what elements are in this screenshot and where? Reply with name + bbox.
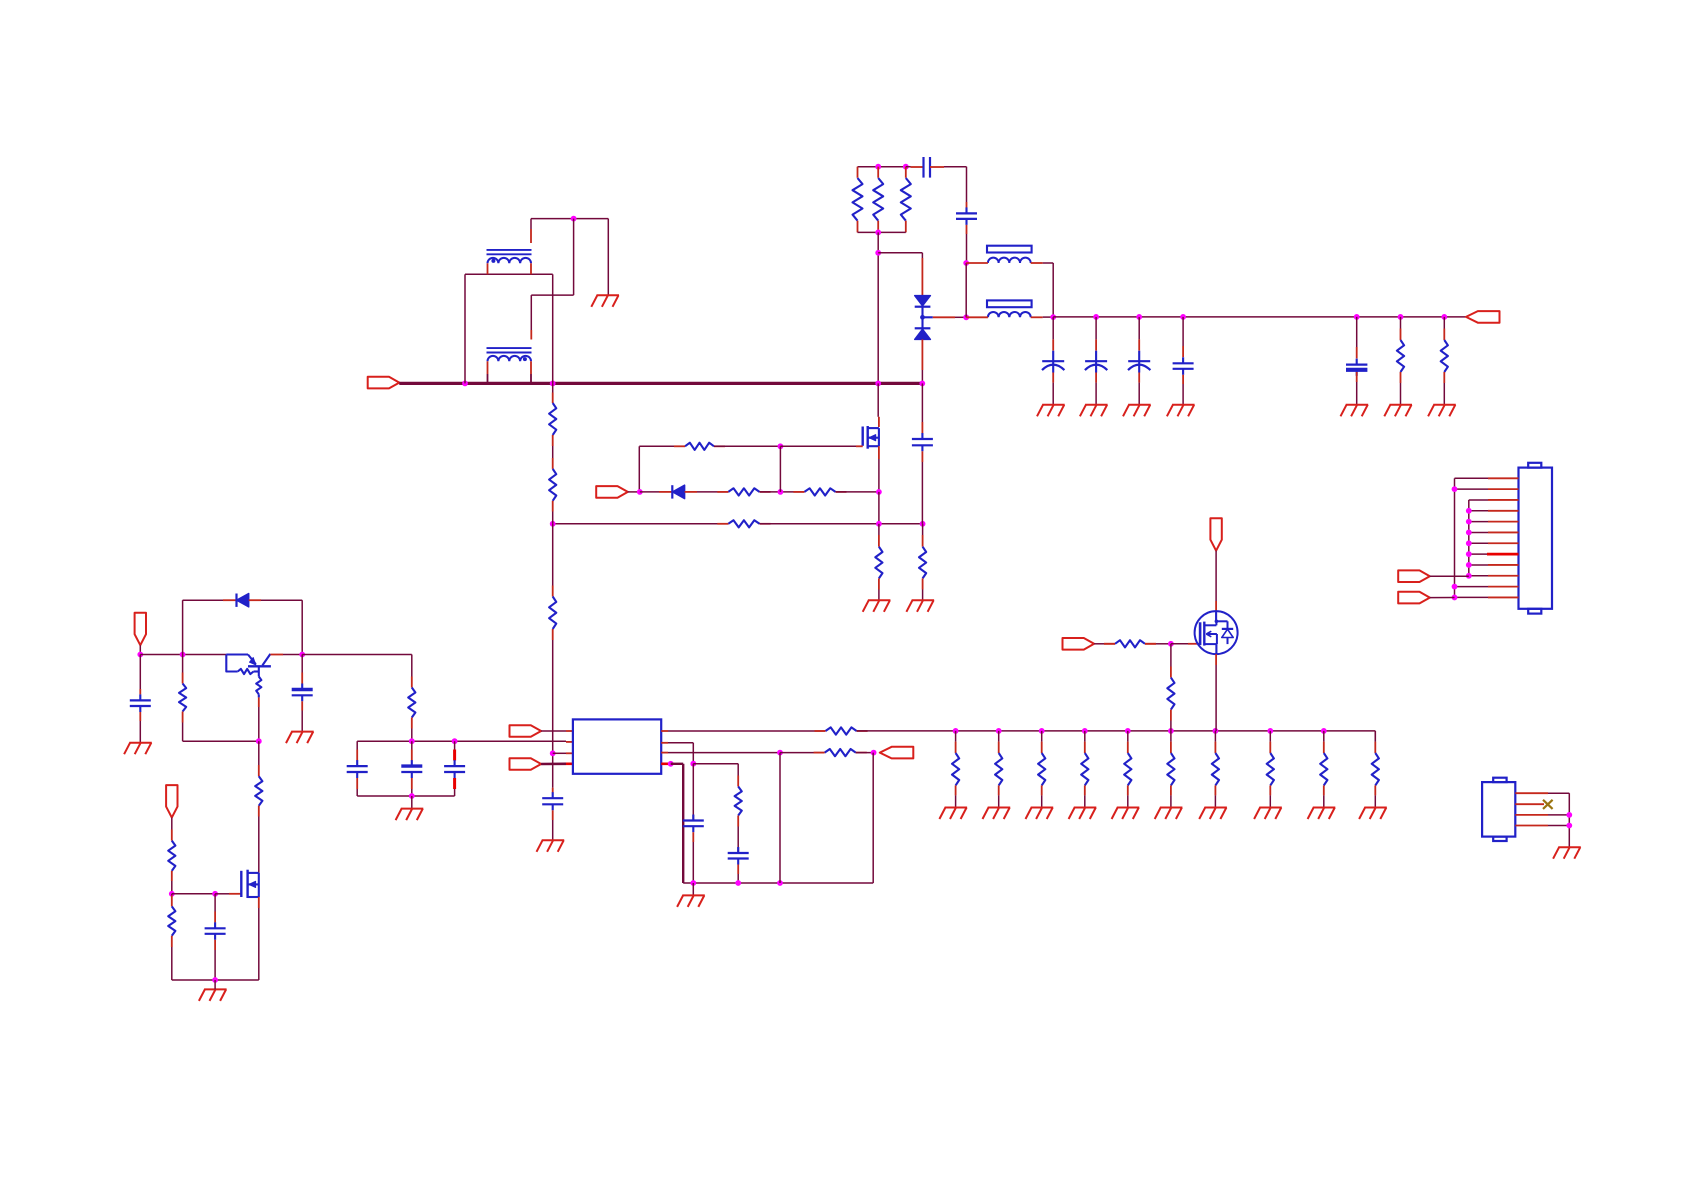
node out bus 6 <box>1398 314 1404 320</box>
node bank bottom junction <box>409 793 415 799</box>
ground G-R31 <box>1308 808 1336 820</box>
wire TVS mid tap <box>923 316 933 318</box>
wire gate row 2 <box>714 445 780 447</box>
node feedback source <box>876 521 882 527</box>
node chain pin3 junction <box>550 750 556 756</box>
node row C junction <box>777 750 783 756</box>
wire feedback row 2 <box>760 523 923 525</box>
resistor R12 <box>552 383 554 392</box>
transistor Q2 MOSFET with body diode <box>1195 611 1238 654</box>
capacitor C3 polarized <box>1052 317 1054 339</box>
wire J1 rail 1 <box>1454 478 1456 597</box>
resistor R7 <box>728 488 759 495</box>
node bus T2 junction <box>550 381 556 387</box>
resistor R31 <box>1323 731 1325 742</box>
resistor R24 <box>998 731 1000 742</box>
connector J2 body <box>1482 782 1515 837</box>
pin J1-10 <box>1469 575 1488 577</box>
wire drive row 2 <box>760 491 805 493</box>
node bank bus 1 <box>953 728 959 734</box>
wire bank bus corner <box>1374 731 1376 742</box>
resistor R21 <box>825 749 856 756</box>
resistor R17 <box>171 830 173 841</box>
node bank bus 8 <box>1267 728 1273 734</box>
wire T2 feed <box>573 219 575 296</box>
resistor R18 <box>171 894 173 896</box>
wire row B corner <box>668 742 693 744</box>
wire cap bank bottom rail <box>357 795 454 797</box>
diode D1 TVS bidirectional <box>915 296 931 306</box>
pin U1 out C <box>661 752 668 754</box>
capacitor C17 <box>737 848 739 854</box>
wire top link <box>530 219 532 229</box>
wire bottom left rail <box>172 979 259 981</box>
wire P12 to pin12 <box>1430 597 1455 599</box>
ground G-R30 <box>1254 808 1282 820</box>
node rail junction 3 <box>777 880 783 886</box>
wire drive row <box>697 491 728 493</box>
node bank bus 7 <box>1213 728 1219 734</box>
wire Q2 source to bus <box>1215 665 1217 731</box>
wire P7 to IC thick <box>541 762 566 765</box>
node out bus 1 <box>1050 314 1056 320</box>
capacitor C12 <box>356 741 358 749</box>
node snubber tap <box>875 250 881 256</box>
resistor R27 <box>1127 731 1129 742</box>
ground G-R26 <box>1069 808 1097 820</box>
pin J2-4 <box>1515 825 1548 827</box>
resistor R10 <box>878 524 880 535</box>
pin Q1 source <box>878 446 880 459</box>
wire chain link 1 <box>552 446 554 458</box>
capacitor C7 electrolytic <box>1356 317 1358 347</box>
transistor Q1 MOSFET <box>878 417 880 427</box>
wire pin3 link <box>553 752 566 754</box>
ground G-C15 <box>537 840 565 852</box>
wire to ground drop <box>607 219 609 296</box>
pin Q4 emitter-R <box>258 697 260 707</box>
pin J1-11 <box>1455 586 1489 588</box>
capacitor C8 <box>921 383 923 422</box>
node out bus 4 <box>1180 314 1186 320</box>
node L1 input junction <box>963 260 969 266</box>
resistor R20 <box>826 727 857 734</box>
node bank bus 9 <box>1321 728 1327 734</box>
node bank bus 2 <box>996 728 1002 734</box>
wire snubber drop <box>877 232 879 383</box>
wire P5 stub <box>171 818 173 830</box>
wire L1 out corner <box>1043 262 1054 264</box>
node bus TVS junction <box>919 381 925 387</box>
wire J2-4 link <box>1548 825 1569 827</box>
pin Q3 gate wire <box>215 893 229 895</box>
wire J2-3 link <box>1548 814 1569 816</box>
wire P10 to Q2 <box>1215 551 1217 601</box>
resistor R13 <box>552 458 554 469</box>
resistor R3 <box>905 167 907 178</box>
node drive junction <box>637 489 643 495</box>
node rail junction 2 <box>735 880 741 886</box>
resistor R32 <box>1374 731 1376 742</box>
wire gate rail <box>172 893 215 895</box>
wire Q1 source down <box>878 459 880 492</box>
transformer T2 winding A <box>487 347 532 349</box>
IC U1 <box>573 719 661 773</box>
pin J1-4 <box>1469 510 1488 512</box>
resistor R34 <box>1170 644 1172 667</box>
node out bus 7 <box>1441 314 1447 320</box>
wire TVS link <box>878 252 922 254</box>
resistor R25 <box>1041 731 1043 742</box>
ground G-R11 <box>906 600 934 612</box>
node out bus 5 <box>1354 314 1360 320</box>
ground G-C9 <box>124 743 152 755</box>
ground G-R28 <box>1155 808 1183 820</box>
inductor L2 <box>987 300 1032 307</box>
wire row A <box>668 730 826 732</box>
resistor R15 <box>182 655 184 673</box>
node J1 rail1 pin11 <box>1452 584 1458 590</box>
capacitor C1 <box>906 166 911 168</box>
node J1 rail2 pin7 <box>1466 540 1472 546</box>
wire transformer top jog <box>465 273 553 275</box>
capacitor C10 <box>301 655 303 673</box>
wire collector link <box>283 654 302 656</box>
resistor R22 <box>737 776 739 787</box>
capacitor C4 polarized <box>1095 317 1097 339</box>
resistor R6 <box>685 443 714 450</box>
wire bank gnd stub <box>411 796 413 809</box>
no-connect X mark <box>1543 800 1553 809</box>
transformer T1 winding A <box>487 249 532 251</box>
connector P7 input arrow 2 <box>510 758 542 770</box>
wire Q3 source down <box>258 908 260 980</box>
resistor R29 <box>1214 731 1216 742</box>
resistor R11 <box>922 524 924 535</box>
connector P2 output arrow <box>1466 311 1500 323</box>
resistor R4 <box>1400 317 1402 329</box>
connector P3 drive input arrow <box>596 486 628 498</box>
wire chain long drop <box>552 640 554 788</box>
ground G-rail <box>692 883 694 895</box>
wire drain from bus <box>877 383 879 416</box>
connector P8 output arrow <box>880 747 914 759</box>
node out bus 3 <box>1136 314 1142 320</box>
connector P12 arrow to J1 <box>1398 592 1430 604</box>
ground G-R32 <box>1359 808 1387 820</box>
node gate junction <box>1168 641 1174 647</box>
pin J1-12 <box>1455 596 1489 598</box>
node J1 rail1 pin12 <box>1452 595 1458 601</box>
wire L junction drop <box>965 263 967 317</box>
node snubber bottom mid <box>875 230 881 236</box>
wire bank bus <box>857 730 1376 732</box>
capacitor C6 <box>1182 317 1184 346</box>
node collector junction <box>299 652 305 658</box>
resistor R5 <box>1443 317 1445 329</box>
node out bus 2 <box>1093 314 1099 320</box>
wire feedback row <box>553 523 729 525</box>
node feedback right <box>920 521 926 527</box>
node rail junction 1 <box>690 880 696 886</box>
wire row B to RC branch <box>693 763 738 765</box>
ground G-R27 <box>1112 808 1140 820</box>
ground G-R10 <box>863 600 891 612</box>
wire row B down <box>692 764 694 815</box>
node J1 rail2 pin6 <box>1466 530 1472 536</box>
wire gate row <box>639 445 685 447</box>
pin J1-7 <box>1469 542 1488 544</box>
node L2 input junction <box>963 314 969 320</box>
pin J1-2 <box>1455 488 1489 490</box>
wire P4 stub <box>139 645 141 654</box>
node bank bus 4 <box>1082 728 1088 734</box>
ground G-R25 <box>1026 808 1054 820</box>
wire left rail lower <box>183 740 259 742</box>
wire diode loop up <box>182 600 184 654</box>
wire diode loop right <box>261 599 302 601</box>
node J1 rail2 pin9 <box>1466 562 1472 568</box>
wire IC bottom rail <box>683 882 873 884</box>
wire C1 to C2 <box>944 166 967 168</box>
node bus snubber junction <box>875 381 881 387</box>
wire gate row 3 <box>780 445 856 447</box>
ground G-R24 <box>983 808 1011 820</box>
node gate row junction <box>778 443 784 449</box>
pin J1-6 <box>1469 531 1488 533</box>
wire row C 2 <box>780 752 825 754</box>
wire row C 3 <box>856 752 874 754</box>
wire P6 to IC <box>541 730 566 732</box>
ground G-bank <box>396 809 424 821</box>
resistor R33 <box>1115 640 1145 647</box>
pin J2-3 <box>1515 814 1548 816</box>
ground G-R5 <box>1428 405 1456 417</box>
connector P11 arrow to J1 <box>1398 570 1430 582</box>
resistor R14 <box>552 586 554 597</box>
ground G-C6 <box>1167 405 1195 417</box>
wire R22 to C17 <box>737 827 739 848</box>
resistor R26 <box>1084 731 1086 742</box>
resistor R30 <box>1269 731 1271 742</box>
wire chain link 3 <box>552 524 554 586</box>
node bias rail left <box>137 652 143 658</box>
wire J1 rail 2 <box>1468 500 1470 576</box>
wire drive row 3 <box>836 491 879 493</box>
node top link junction <box>571 216 577 222</box>
wire main bus <box>399 382 922 385</box>
node gate cap junction <box>212 891 218 897</box>
wire pin D thick branch <box>671 763 684 765</box>
wire snubber bottom rail <box>858 231 906 233</box>
pin TVS top <box>921 258 923 296</box>
ground G-R29 <box>1199 808 1227 820</box>
connector P5 power arrow <box>166 785 177 818</box>
pin Q3 source <box>258 897 260 908</box>
resistor R1 <box>857 167 859 178</box>
resistor R23 <box>955 731 957 742</box>
pin J2-2 no-connect <box>1515 803 1544 805</box>
wire R19 to Q3 <box>258 817 260 873</box>
node J2-4 junction <box>1566 823 1572 829</box>
wire source to row <box>878 492 880 524</box>
node snubber top right <box>903 164 909 170</box>
pin J1-3 <box>1469 499 1488 501</box>
diode D3 <box>223 599 237 601</box>
ground G-J2 <box>1553 847 1581 859</box>
node Q4 rail junction <box>256 738 262 744</box>
wire Q4 down <box>258 707 260 741</box>
ground G-C4 <box>1080 405 1108 417</box>
wire bias right rail <box>302 654 412 656</box>
connector P10 power arrow <box>1210 518 1221 551</box>
node diode branch <box>180 652 186 658</box>
ground G-C7 <box>1341 405 1369 417</box>
ground G-C10 <box>286 732 314 744</box>
wire cap bank top rail <box>357 740 566 742</box>
capacitor C2 <box>966 202 968 208</box>
wire R33 to gate <box>1145 643 1156 645</box>
node bank bus 3 <box>1039 728 1045 734</box>
wire P11 to pin10 <box>1430 575 1469 577</box>
connector P4 power arrow <box>135 613 146 646</box>
wire gate feed corner <box>638 446 640 492</box>
node J1 rail2 pin5 <box>1466 519 1472 525</box>
resistor R8 <box>804 488 835 495</box>
node bank bus 5 <box>1125 728 1131 734</box>
pin Q2 drain <box>1215 601 1217 611</box>
node J1 rail1 pin2 <box>1452 486 1458 492</box>
pin T1 winding B stub <box>530 229 532 243</box>
wire TVS to bus <box>921 370 923 383</box>
capacitor C11 <box>214 894 216 912</box>
wire R15 down <box>182 723 184 742</box>
capacitor C9 <box>139 655 141 690</box>
connector J1 body <box>1519 468 1553 609</box>
node bus-left junction <box>462 381 468 387</box>
node pin D junction <box>668 761 674 767</box>
capacitor C13 <box>411 741 413 749</box>
pin Q4 collector <box>270 654 283 656</box>
node source junction <box>876 489 882 495</box>
ground G-R23 <box>939 808 967 820</box>
connector P1 AC input arrow <box>368 377 400 389</box>
connector P6 input arrow 1 <box>510 725 542 737</box>
wire R17 down <box>171 881 173 894</box>
node row C out junction <box>871 750 877 756</box>
node J1 rail2 pin10 <box>1466 573 1472 579</box>
wire bias rail <box>140 654 226 656</box>
pin J1-1 <box>1455 477 1489 479</box>
node bottom rail junction <box>212 977 218 983</box>
node J2-3 junction <box>1566 812 1572 818</box>
wire L2 out <box>1043 316 1054 318</box>
wire left riser <box>464 274 466 383</box>
resistor R2 <box>877 167 879 178</box>
wire jog drop <box>552 274 554 383</box>
diode D2 <box>671 485 673 498</box>
node bank bus 6 <box>1168 728 1174 734</box>
wire gate to Q2 <box>1171 643 1188 645</box>
capacitor C14 highlighted pins <box>454 741 456 749</box>
ground G1 <box>591 295 619 307</box>
resistor R9 <box>728 520 759 527</box>
transistor Q3 MOSFET <box>240 871 242 897</box>
connector P9 gate input arrow <box>1063 638 1095 650</box>
pin J1-5 <box>1469 521 1488 523</box>
transistor Q4 digital PNP <box>226 655 237 672</box>
node row B junction <box>690 761 696 767</box>
pin D2 anode wire <box>640 491 659 493</box>
node J1 rail2 pin8 <box>1466 551 1472 557</box>
wire chain link 2 <box>552 512 554 524</box>
ground G-C5 <box>1123 405 1151 417</box>
wire P9 to R <box>1094 643 1104 645</box>
node drive row junction <box>778 489 784 495</box>
wire out drop <box>872 753 874 883</box>
pin TVS bottom <box>921 339 923 370</box>
wire row C drop <box>779 753 781 883</box>
ground G-left <box>199 989 227 1001</box>
wire drive input <box>628 491 640 493</box>
wire C2 drop <box>966 234 968 263</box>
pin J1-8 <box>1469 553 1487 555</box>
pin T2 winding B stub <box>530 330 532 340</box>
node J1 rail2 pin4 <box>1466 508 1472 514</box>
wire row C <box>668 752 780 754</box>
resistor R16 <box>411 655 413 677</box>
resistor R28 <box>1170 731 1172 742</box>
pin U1 out B <box>661 742 668 744</box>
ground G-C3 <box>1037 405 1065 417</box>
node gate rail left <box>169 891 175 897</box>
capacitor C15 <box>552 788 554 793</box>
node bank junction 1 <box>409 738 415 744</box>
pin J1-9 <box>1469 564 1488 566</box>
wire snubber top rail <box>858 166 906 168</box>
resistor R19 <box>258 741 260 765</box>
node feedback left <box>550 521 556 527</box>
node bank junction 2 <box>452 738 458 744</box>
wire J2-1 corner <box>1548 792 1569 794</box>
wire gate pull branch <box>779 446 781 492</box>
pin U1 out A <box>661 730 668 732</box>
capacitor C5 polarized <box>1138 317 1140 339</box>
inductor L1 <box>987 246 1032 253</box>
wire output bus <box>1053 316 1466 318</box>
pin U1 out D thick <box>661 762 671 765</box>
pin Q2 source <box>1215 654 1217 665</box>
capacitor C16 <box>692 815 694 821</box>
ground G-R4 <box>1384 405 1412 417</box>
pin J2-1 <box>1515 792 1548 794</box>
node snubber top mid <box>875 164 881 170</box>
